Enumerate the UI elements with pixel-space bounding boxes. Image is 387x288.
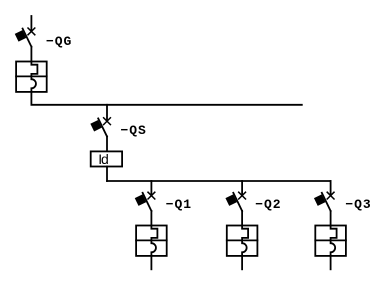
wire: drop from sub bus to -Q2 bbox=[241, 181, 243, 196]
wire: -Q3 outgoing feeder bbox=[330, 256, 332, 269]
wire: drop from sub bus to -Q3 bbox=[330, 181, 332, 196]
circuit breaker -Q3 (contact cross, blade, flag) bbox=[314, 192, 334, 211]
wire: -QG blade to trip unit bbox=[30, 47, 32, 62]
trip unit (thermal-magnetic release) of -Q3 bbox=[315, 226, 346, 256]
trip unit (thermal-magnetic release) of -Q1 bbox=[136, 226, 167, 256]
svg-text:−Q1: −Q1 bbox=[166, 197, 192, 212]
svg-text:−QG: −QG bbox=[46, 34, 72, 49]
wire: -Q2 outgoing feeder bbox=[241, 256, 243, 269]
circuit breaker -QG (contact cross, blade, flag) bbox=[15, 28, 35, 47]
wire: drop from bus to -QS bbox=[106, 105, 108, 121]
wire: -Q3 blade to trip unit bbox=[330, 211, 332, 226]
wire: -Q1 blade to trip unit bbox=[150, 211, 152, 226]
svg-text:−Q2: −Q2 bbox=[255, 197, 281, 212]
residual current relay Id box bbox=[91, 151, 122, 166]
wire: -Q2 blade to trip unit bbox=[241, 211, 243, 226]
svg-text:Id: Id bbox=[98, 151, 108, 167]
wire: sub distribution bus bbox=[107, 180, 331, 182]
wire: -QG output down and main bus to the right bbox=[31, 92, 301, 105]
wire: -Q1 outgoing feeder bbox=[150, 256, 152, 269]
circuit breaker -Q1 (contact cross, blade, flag) bbox=[135, 192, 155, 211]
circuit breaker -Q2 (contact cross, blade, flag) bbox=[225, 192, 245, 211]
circuit breaker -QS (contact cross, blade, flag) bbox=[90, 118, 110, 137]
wire: Id box to sub bus bbox=[106, 167, 108, 182]
trip unit (thermal-magnetic release) of -Q2 bbox=[227, 226, 258, 256]
wire: incoming top lead to -QG bbox=[30, 16, 32, 31]
wire: drop from sub bus to -Q1 bbox=[150, 181, 152, 196]
svg-text:−Q3: −Q3 bbox=[345, 197, 371, 212]
svg-text:−QS: −QS bbox=[121, 123, 147, 138]
wire: -QS blade to residual current relay bbox=[106, 137, 108, 151]
trip unit (thermal-magnetic release) of -QG bbox=[16, 62, 47, 92]
